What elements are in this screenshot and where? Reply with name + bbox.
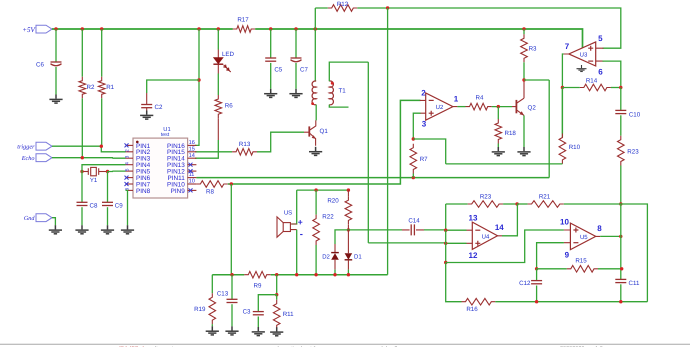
transformer T1: [312, 81, 316, 105]
ground C13: [225, 326, 238, 335]
bottom border line: [0, 343, 690, 345]
svg-text:2: 2: [125, 149, 131, 152]
wire R13 to Q1 base: [257, 132, 304, 152]
wire LED top lead: [217, 50, 219, 58]
LED LED1 symbol: [214, 58, 223, 64]
junction feedback row: [515, 202, 518, 205]
wire D2 jog: [335, 230, 348, 244]
junction rail T1: [314, 27, 317, 30]
wire R20 top lead: [347, 190, 349, 196]
svg-text:US: US: [284, 209, 292, 216]
svg-text:6: 6: [598, 68, 603, 77]
wire C14 row left: [348, 229, 402, 231]
no-connect pin9: [189, 188, 193, 192]
wire R12 right to U3+: [357, 8, 621, 48]
wire pin8 to ground: [126, 190, 128, 225]
svg-text:3: 3: [422, 120, 427, 129]
svg-text:C10: C10: [629, 112, 641, 119]
wire R22 bottom lead: [315, 245, 317, 275]
junction bus D2: [333, 273, 336, 276]
wire T1 primary top: [314, 29, 316, 81]
svg-text:R14: R14: [586, 77, 598, 84]
wire U2 pin3 to R7: [413, 113, 420, 139]
svg-text:C2: C2: [155, 104, 163, 111]
svg-text:R13: R13: [239, 141, 251, 148]
op-amp U2 plus mark: [429, 111, 434, 116]
junction rail LED: [217, 27, 220, 30]
capacitor C8: [77, 201, 88, 203]
svg-text:U4: U4: [482, 234, 490, 241]
junction Echo R2: [81, 156, 84, 159]
wire R23h left column: [445, 204, 447, 230]
resistor R6: [215, 95, 222, 118]
junction R15 left: [535, 267, 538, 270]
junction rail C6: [54, 27, 57, 30]
op-amp U3 plus mark: [588, 46, 593, 51]
wire R7 bottom lead: [412, 174, 414, 178]
resistor R12: [328, 5, 358, 12]
ground C5: [264, 89, 277, 98]
wire C13 top lead: [231, 275, 233, 300]
wire U3 out column: [562, 54, 563, 134]
svg-text:R8: R8: [206, 189, 214, 196]
resistor R15: [567, 266, 598, 273]
svg-text:5: 5: [598, 34, 603, 43]
svg-text:R18: R18: [505, 130, 517, 137]
svg-text:Q1: Q1: [320, 128, 329, 135]
wire U4 out: [502, 204, 517, 236]
wire Q2 collector lead: [523, 80, 525, 98]
capacitor C13: [227, 298, 238, 300]
svg-text:14: 14: [495, 223, 504, 232]
wire R14 right lead: [611, 87, 621, 89]
svg-text:D2: D2: [322, 253, 330, 260]
speaker US: [283, 223, 290, 232]
op-amp U5 stubs: [564, 230, 600, 243]
junction R7 top: [412, 137, 415, 140]
svg-text:R21: R21: [539, 193, 551, 200]
resistor R16: [462, 298, 496, 305]
op-amp U4 stubs: [467, 230, 503, 243]
ground pin8: [121, 225, 134, 234]
wire collector node right: [524, 80, 549, 178]
wire Gnd flag: [52, 218, 55, 226]
wire LED top: [217, 29, 219, 50]
svg-text:U3: U3: [580, 52, 588, 59]
junction R15 right: [620, 267, 623, 270]
wire R18 top lead: [497, 107, 499, 119]
svg-text:C9: C9: [115, 202, 123, 209]
wire R6 to pin14: [195, 140, 218, 158]
wire R21 right route: [564, 204, 648, 302]
svg-text:3: 3: [125, 155, 131, 158]
svg-text:R11: R11: [283, 311, 294, 318]
IC U1 body: [133, 138, 188, 198]
wire U2 out to R4: [457, 106, 465, 108]
wire C2 top: [147, 80, 199, 93]
svg-text:R23: R23: [627, 149, 639, 156]
IC U1 pin stubs: [126, 145, 197, 190]
junction rail R3: [522, 27, 525, 30]
transistor Q2: [515, 100, 517, 113]
svg-text:2: 2: [421, 89, 426, 98]
wire subnode down: [276, 275, 278, 295]
wire C6 bottom: [55, 67, 57, 95]
svg-text:7: 7: [565, 42, 570, 51]
wire R23h right lead: [503, 203, 517, 205]
wire C3 bottom lead: [257, 317, 259, 328]
ground Q1 emitter: [309, 147, 322, 156]
diode D2: [334, 244, 336, 253]
svg-text:15: 15: [189, 146, 195, 152]
wire U4 column to R16: [446, 263, 462, 302]
wire R7 top to column: [413, 139, 445, 164]
svg-text:C14: C14: [408, 217, 420, 224]
svg-text:+: +: [298, 217, 303, 227]
svg-text:C8: C8: [90, 202, 98, 209]
junction rail R1: [100, 27, 103, 30]
resistor R18: [495, 119, 502, 144]
op-amp U2: [426, 93, 453, 120]
junction U5 out: [619, 235, 622, 238]
wire R15 right lead: [598, 268, 622, 270]
capacitor C11: [615, 278, 626, 280]
svg-text:trigger: trigger: [17, 144, 35, 151]
op-amp U4 plus mark: [475, 241, 480, 246]
wire to U5 plus: [446, 230, 564, 263]
wire T1 sec bottom: [329, 105, 348, 108]
capacitor C7: [291, 57, 302, 59]
wire R3 bottom: [523, 62, 525, 80]
svg-text:Y1: Y1: [90, 177, 98, 184]
resistor R10: [559, 134, 566, 164]
svg-text:PIN9: PIN9: [171, 188, 186, 195]
wire Q2 emitter: [523, 115, 525, 147]
svg-text:R3: R3: [529, 45, 537, 52]
wire US minus: [296, 230, 298, 275]
resistor R21: [528, 201, 564, 208]
capacitor C6: [51, 61, 62, 63]
op-amp U3 stubs: [564, 48, 604, 61]
wire U4 column mid: [445, 230, 447, 262]
wire U5 out: [600, 235, 621, 237]
wire R15 left lead: [537, 268, 567, 270]
no-connect pin13: [189, 163, 193, 167]
svg-text:LED: LED: [222, 51, 235, 58]
svg-text:C13: C13: [217, 290, 229, 297]
svg-text:PIN8: PIN8: [136, 188, 151, 195]
wire C8 top: [81, 172, 83, 203]
ground U3: [577, 65, 587, 72]
wire R12 left: [315, 8, 327, 29]
wire R18 bottom lead: [497, 144, 499, 148]
wire C5 top: [270, 29, 272, 58]
wire D2 bottom: [334, 270, 336, 275]
junction bottom C11: [619, 300, 622, 303]
wire C7 bottom: [295, 63, 297, 89]
svg-text:+5V: +5V: [22, 26, 35, 34]
op-amp U4 minus mark: [475, 229, 480, 231]
svg-text:10: 10: [560, 217, 569, 226]
resistor R13: [232, 149, 257, 156]
IC U1 pin1 marker: [136, 141, 139, 144]
svg-text:R4: R4: [476, 94, 484, 101]
svg-text:Echo: Echo: [21, 155, 35, 162]
wire R23h left lead: [446, 203, 468, 205]
capacitor C2: [141, 104, 152, 106]
wire pin15 to R13: [195, 151, 232, 153]
svg-text:R19: R19: [194, 306, 206, 313]
wire U5 pin9: [537, 243, 564, 269]
capacitor C9: [102, 201, 113, 203]
junction U4 minus: [444, 229, 447, 232]
svg-text:U2: U2: [436, 104, 444, 111]
wire R19 bottom lead: [211, 324, 213, 326]
svg-text:R20: R20: [327, 198, 339, 205]
svg-text:1: 1: [454, 94, 459, 103]
svg-text:T1: T1: [339, 88, 347, 95]
junction R14 right: [619, 86, 622, 89]
resistor R7: [410, 144, 417, 174]
resistor R1: [98, 77, 105, 99]
svg-text:5: 5: [125, 168, 131, 171]
junction C3 R11: [275, 293, 278, 296]
op-amp U3 minus mark: [588, 60, 593, 62]
wire +5V rail: [52, 28, 233, 30]
wire bus right: [271, 274, 388, 276]
wire Y1 right: [99, 171, 108, 173]
junction rail C7: [294, 27, 297, 30]
wire C2 top lead: [146, 93, 148, 105]
svg-text:12: 12: [469, 251, 478, 260]
wire C8 bottom: [81, 207, 83, 225]
wire C12 bottom lead: [536, 286, 538, 302]
junction U4 column low: [444, 261, 447, 264]
wire Y1 left: [82, 171, 88, 173]
ground C2: [140, 111, 153, 120]
resistor R23 vertical: [618, 136, 625, 166]
junction R20 top: [347, 188, 350, 191]
input flag Echo: [36, 154, 52, 162]
wire U5 out column: [620, 204, 622, 279]
no-connect pin7: [125, 182, 129, 186]
svg-text:R16: R16: [466, 306, 478, 313]
wire pin11 row: [196, 177, 549, 179]
power flag +5V: [36, 25, 52, 33]
junction bus USminus: [295, 273, 298, 276]
wire bottom row: [495, 301, 647, 303]
svg-text:16: 16: [189, 140, 195, 146]
op-amp U5: [570, 223, 595, 250]
junction R12 output: [386, 6, 389, 9]
resistor R17: [233, 26, 255, 33]
ground R18: [492, 147, 505, 156]
resistor R20: [345, 196, 352, 224]
wire bus left: [212, 274, 244, 276]
junction U4 plus: [444, 242, 447, 245]
junction bus R9R: [275, 273, 278, 276]
wire C14 row right: [424, 229, 467, 231]
junction rail C5: [269, 27, 272, 30]
wire LED bottom lead: [217, 64, 219, 73]
junction rail pin16 column: [197, 27, 200, 30]
resistor R9: [244, 271, 270, 278]
ground Gnd flag: [49, 225, 62, 234]
wire C11 bottom lead: [620, 284, 622, 301]
ground R19: [206, 326, 219, 335]
svg-text:R12: R12: [337, 1, 349, 8]
wire x387 column: [387, 8, 389, 275]
svg-text:D1: D1: [354, 253, 362, 260]
wire C12 top lead: [536, 269, 538, 281]
capacitor C10: [615, 109, 626, 111]
ground C9: [101, 225, 114, 234]
junction bottom C12: [535, 300, 538, 303]
resistor R14: [580, 84, 611, 91]
svg-text:10: 10: [189, 179, 195, 185]
wire trigger to pin2: [52, 146, 126, 152]
svg-text:Gnd: Gnd: [24, 215, 36, 222]
svg-text:9: 9: [565, 250, 570, 259]
wire R1 top lead: [101, 29, 103, 77]
svg-text:C3: C3: [243, 308, 251, 315]
wire R23v to feedback row: [620, 166, 622, 205]
junction bus R22: [314, 273, 317, 276]
wire C7 top: [295, 29, 297, 58]
wire D1 bottom: [347, 270, 349, 275]
ground C8: [75, 225, 88, 234]
no-connect pin1: [125, 143, 129, 147]
wire R6 bottom lead: [217, 118, 219, 140]
resistor R22: [313, 215, 320, 245]
ground C6: [49, 95, 62, 104]
wire R2 top lead: [81, 29, 83, 77]
svg-text:13: 13: [469, 213, 478, 222]
svg-text:R2: R2: [87, 84, 95, 91]
wire C13 bottom lead: [231, 304, 233, 326]
wire Y1 to pin4: [82, 165, 126, 172]
svg-text:C6: C6: [36, 62, 44, 69]
wire C6 top: [55, 29, 57, 62]
junction Y1 left: [80, 170, 83, 173]
wire C5 bottom: [270, 63, 272, 89]
capacitor C5: [265, 57, 276, 59]
svg-text:-: -: [300, 229, 303, 240]
op-amp U5 plus mark: [573, 228, 578, 233]
wire C2 bottom: [146, 108, 148, 111]
capacitor C14: [402, 229, 424, 231]
junction D1 R20 C14: [347, 228, 350, 231]
svg-text:8: 8: [597, 224, 602, 233]
wire US plus: [292, 190, 297, 224]
op-amp U2 input stubs: [420, 100, 458, 113]
wire R21 left lead: [517, 203, 528, 205]
op-amp U4: [472, 222, 497, 249]
svg-text:4: 4: [125, 162, 131, 165]
ground Q2: [517, 147, 530, 156]
diode D1: [347, 230, 349, 253]
resistor R3: [521, 34, 528, 62]
wire R4 to Q2 base: [492, 106, 512, 108]
wire +5V rail right: [255, 29, 582, 48]
wire U3 minus net: [603, 61, 621, 87]
wire R8 output down: [230, 184, 232, 275]
wire R2 bottom: [81, 98, 83, 158]
transistor Q1: [308, 126, 310, 136]
svg-text:R23: R23: [480, 193, 492, 200]
svg-text:R17: R17: [237, 17, 249, 24]
svg-text:C5: C5: [274, 67, 282, 74]
wire LED to R6: [217, 74, 219, 96]
junction trigger R1: [100, 145, 103, 148]
crystal Y1: [91, 167, 97, 175]
op-amp U3: [569, 42, 596, 66]
wire R3 top lead: [523, 29, 525, 34]
junction bus D1: [347, 273, 350, 276]
junction C2 tap: [197, 78, 200, 81]
svg-text:Q2: Q2: [528, 104, 537, 111]
resistor R8: [196, 181, 227, 188]
svg-text:U5: U5: [580, 234, 588, 241]
svg-text:R9: R9: [254, 282, 262, 289]
capacitor C3: [253, 311, 264, 313]
junction R22 top: [314, 188, 317, 191]
svg-text:R10: R10: [569, 144, 581, 151]
wire R10 top lead: [561, 88, 563, 138]
svg-text:11: 11: [189, 172, 195, 178]
junction Y1 right: [106, 170, 109, 173]
wire R10 bottom row: [446, 163, 563, 165]
junction R4 R18: [497, 105, 500, 108]
junction R8 output: [230, 182, 233, 185]
wire R22 top lead: [315, 190, 317, 215]
wire C9 top: [107, 172, 109, 203]
wire R14 left lead: [562, 87, 579, 89]
input flag trigger: [36, 142, 52, 150]
svg-text:R6: R6: [225, 103, 233, 110]
junction R23v row: [619, 202, 622, 205]
wire R11 top lead: [276, 295, 278, 300]
op-amp U5 minus mark: [573, 242, 578, 244]
no-connect pin12: [189, 169, 193, 173]
junction bus R8col: [230, 273, 233, 276]
IC U1 pin names: [136, 143, 185, 195]
no-connect pin6: [125, 176, 129, 180]
svg-text:14: 14: [189, 153, 195, 159]
junction R7 bottom: [412, 176, 415, 179]
wire pin10 row: [228, 100, 421, 184]
junction U3 out R14: [561, 86, 564, 89]
wire pin16 column: [195, 29, 199, 145]
wire Q1 collector: [315, 105, 317, 121]
svg-text:test: test: [161, 132, 170, 138]
resistor R19: [209, 293, 216, 324]
ground C3: [252, 327, 265, 336]
wire Y1 to pin5: [108, 170, 126, 172]
op-amp U2 minus mark: [429, 99, 434, 101]
ground flag Gnd: [36, 214, 52, 222]
svg-text:C12: C12: [519, 280, 531, 287]
wire U4 plus row: [368, 62, 466, 243]
wire Echo to pin3: [52, 157, 126, 160]
svg-text:R7: R7: [420, 156, 428, 163]
resistor R23 horizontal: [468, 201, 503, 208]
wire C9 bottom: [107, 207, 109, 225]
svg-text:C11: C11: [629, 280, 640, 287]
wire R14right to C10: [620, 88, 622, 111]
wire C3 branch: [258, 295, 276, 312]
capacitor C12: [531, 280, 542, 282]
